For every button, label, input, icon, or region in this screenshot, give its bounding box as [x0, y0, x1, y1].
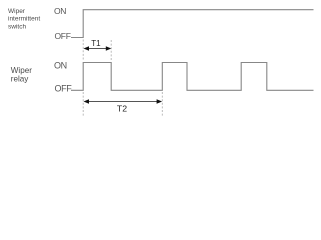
- svg-text:T2: T2: [117, 103, 127, 113]
- svg-text:OFF: OFF: [55, 31, 71, 41]
- svg-text:OFF: OFF: [55, 83, 73, 93]
- svg-text:switch: switch: [8, 23, 26, 30]
- svg-text:Wiper: Wiper: [8, 8, 26, 15]
- node: dashed extension right of T1: [110, 40, 112, 61]
- node: dashed extension left of T2: [82, 92, 84, 117]
- node: dashed extension left of T1: [82, 40, 84, 62]
- svg-text:ON: ON: [54, 60, 67, 70]
- node: dashed extension right of T2: [161, 92, 163, 117]
- dimension arrow T1: [84, 39, 112, 51]
- dimension arrow T2: [84, 99, 163, 113]
- svg-text:T1: T1: [91, 39, 101, 48]
- svg-text:relay: relay: [11, 74, 29, 83]
- svg-text:ON: ON: [54, 6, 66, 16]
- svg-text:intermittent: intermittent: [8, 16, 40, 23]
- wire: wiper intermittent switch waveform: [71, 10, 314, 38]
- wire: wiper relay waveform: [71, 63, 314, 91]
- label: Wiper intermittent switch: [8, 8, 40, 31]
- label: Wiper relay: [11, 66, 32, 84]
